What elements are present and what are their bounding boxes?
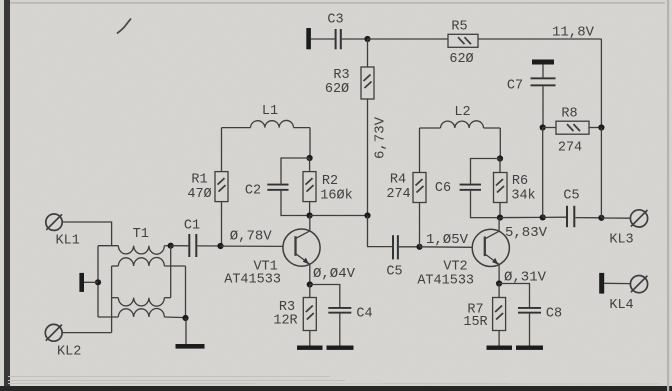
svg-text:16Øk: 16Øk	[320, 189, 352, 204]
svg-text:R8: R8	[561, 107, 577, 122]
svg-text:VT2: VT2	[443, 260, 467, 275]
wire junction down to ground	[185, 318, 187, 344]
svg-text:C1: C1	[184, 219, 200, 234]
junction C7/R8 left	[540, 124, 546, 130]
wire emitter node to R3	[309, 285, 311, 298]
ground (T1 bottom)	[176, 344, 205, 349]
svg-text:C3: C3	[327, 13, 343, 28]
node C junction (R3/collector/C5)	[364, 212, 370, 218]
svg-text:AT41533: AT41533	[224, 273, 281, 288]
wire C5 to node D	[399, 246, 420, 248]
resistor R7	[493, 298, 506, 331]
junction rail/C7-R8 leg	[540, 214, 546, 220]
node F junction (supply leg/KL3)	[598, 215, 604, 221]
resistor R8	[556, 121, 589, 134]
wire R4 down to node D	[419, 203, 421, 247]
wire node D to VT2 base	[420, 246, 473, 249]
ground (C8)	[516, 346, 543, 350]
svg-text:C5: C5	[386, 265, 402, 280]
node D junction (C5/R4/VT2 base)	[416, 244, 422, 250]
wire node F to KL3	[601, 217, 630, 219]
wire L1 left down to R1	[221, 128, 223, 172]
svg-text:1,Ø5V: 1,Ø5V	[426, 232, 469, 248]
svg-text:C2: C2	[245, 184, 261, 199]
svg-text:C6: C6	[435, 181, 451, 196]
wire to R8	[543, 127, 556, 129]
ground (C7 top)	[532, 60, 554, 65]
wire C3 to node A	[342, 38, 368, 40]
wire left chain w1a to w2b	[97, 246, 99, 317]
wire C1 to base node	[197, 245, 220, 247]
capacitor C5 (output)	[566, 206, 575, 227]
svg-text:274: 274	[558, 141, 582, 156]
wire emitter node to C8	[499, 284, 529, 308]
svg-text:11,8V: 11,8V	[552, 25, 595, 41]
svg-text:5,83V: 5,83V	[505, 225, 548, 241]
scan frame bottom border	[0, 386, 672, 391]
wire R6 down to collector rail	[499, 203, 501, 218]
svg-text:R1: R1	[191, 173, 207, 188]
terminal KL4	[630, 276, 647, 293]
wire L1 right down to node B	[309, 128, 311, 158]
wire collector node to node C	[310, 215, 368, 217]
wire C7 down to R8 left node	[542, 86, 544, 127]
wire R7 to ground	[498, 331, 500, 346]
wire R3 down to collector node VT1	[367, 99, 369, 216]
svg-text:R4: R4	[390, 173, 406, 188]
svg-text:C8: C8	[546, 307, 562, 322]
wire R8 to supply leg	[589, 127, 601, 129]
terminal KL2	[45, 324, 62, 341]
terminal KL1	[46, 214, 62, 230]
wire node C down and right to C5	[368, 216, 393, 247]
junction R1/base	[217, 243, 223, 249]
svg-text:47Ø: 47Ø	[187, 187, 211, 202]
wire VT2 collector	[498, 218, 500, 232]
ground (T1 left)	[79, 273, 84, 292]
resistor R2	[303, 172, 316, 202]
wire C5 output to node F	[575, 217, 601, 219]
node B junction (L1/C2/R2)	[307, 155, 313, 161]
resistor R6	[494, 173, 508, 203]
svg-text:KL2: KL2	[57, 345, 81, 360]
ground (C4)	[327, 346, 354, 350]
transistor VT2	[472, 229, 509, 266]
transformer T1 winding 1b	[112, 258, 186, 267]
wire L2 left down to R4	[419, 128, 421, 173]
wire supply rail down right side	[600, 39, 602, 128]
wire C4 to ground	[339, 314, 341, 346]
wire C6 down to collector rail	[471, 191, 501, 218]
wire VT1 collector	[309, 216, 311, 232]
resistor R3 (620)	[361, 67, 374, 99]
capacitor C4	[328, 307, 351, 314]
wire w1b left down to KL2 line	[111, 266, 113, 333]
wire R5 to supply corner	[478, 38, 601, 40]
svg-text:274: 274	[386, 187, 410, 202]
wire ground to tap	[84, 281, 98, 283]
ground (KL4)	[599, 273, 604, 294]
capacitor C3	[335, 29, 342, 49]
wire node B down to R2	[309, 158, 311, 172]
svg-text:62Ø: 62Ø	[325, 82, 349, 97]
svg-text:AT41533: AT41533	[417, 274, 474, 289]
svg-text:Ø,Ø4V: Ø,Ø4V	[313, 266, 356, 282]
svg-text:KL1: KL1	[56, 234, 80, 249]
svg-text:15R: 15R	[463, 315, 487, 330]
transformer T1 winding 2a	[112, 298, 171, 307]
svg-text:L1: L1	[262, 104, 278, 119]
wire rail to C7/R8 junction	[500, 216, 543, 218]
svg-text:C7: C7	[507, 79, 523, 94]
node E junction (L2/C6/R6)	[497, 155, 503, 161]
wire R8 left node down to rail	[542, 128, 544, 218]
svg-text:KL3: KL3	[609, 233, 633, 248]
scan frame right edge line	[667, 0, 669, 391]
junction R8 right/supply leg	[598, 124, 604, 130]
transistor VT1	[283, 229, 320, 266]
wire C2 down to collector wire	[281, 191, 310, 216]
wire supply leg down to node F	[600, 128, 602, 218]
node A junction (C3/R3/R5)	[364, 36, 370, 42]
transformer T1 winding 1a	[98, 246, 171, 255]
svg-text:62Ø: 62Ø	[449, 52, 473, 67]
resistor R3 (12R)	[303, 298, 316, 331]
capacitor C5 (interstage)	[392, 235, 399, 259]
wire node E down to R6	[499, 159, 501, 173]
wire VT1 emitter	[309, 264, 311, 284]
junction T1 ground tap	[95, 279, 101, 285]
svg-text:KL4: KL4	[609, 298, 633, 313]
svg-text:Ø,78V: Ø,78V	[230, 229, 273, 245]
wire L2 right down to node E	[499, 128, 501, 159]
svg-text:R3: R3	[333, 68, 349, 83]
capacitor C1	[188, 234, 197, 257]
resistor R5	[448, 34, 478, 47]
capacitor C8	[518, 307, 541, 314]
wire ground to C3	[311, 38, 335, 40]
wire C8 to ground	[529, 314, 531, 346]
svg-text:C5: C5	[563, 189, 579, 204]
resistor R4	[413, 173, 426, 203]
wire node A down to R3	[367, 39, 369, 67]
inductor L2	[420, 121, 501, 128]
svg-text:12R: 12R	[273, 314, 297, 329]
ground (C3 left)	[306, 28, 311, 49]
faint scan lines bottom left	[8, 377, 660, 384]
svg-text:L2: L2	[454, 105, 470, 120]
svg-text:Ø,31V: Ø,31V	[504, 270, 547, 286]
terminal KL3	[630, 210, 647, 227]
junction VT1 emitter node	[307, 281, 313, 287]
scan frame top edge line	[10, 2, 665, 3]
wire node B left to C2	[281, 158, 310, 184]
ground (R7)	[487, 346, 513, 350]
wire emitter node to C4	[310, 285, 340, 308]
svg-text:R6: R6	[512, 174, 528, 189]
inductor L1	[222, 120, 311, 127]
svg-text:T1: T1	[133, 227, 149, 242]
junction R2/collector	[307, 212, 313, 218]
resistor R1	[215, 172, 228, 202]
junction VT2 emitter node	[496, 280, 502, 286]
wire node A to R5	[368, 38, 449, 40]
wire C1 node down to w2a right	[170, 246, 172, 298]
scan frame left border	[4, 0, 10, 391]
svg-text:R2: R2	[322, 174, 338, 189]
capacitor C6	[460, 184, 481, 191]
wire ground to C7	[542, 65, 544, 78]
wire node E left to C6	[471, 159, 501, 184]
capacitor C2	[267, 184, 288, 191]
wire R3 to ground	[309, 331, 311, 346]
wire rail to C5 output	[543, 216, 566, 218]
capacitor C7	[531, 77, 556, 86]
stray pen mark top left	[117, 19, 131, 34]
transformer T1 winding 2b	[98, 309, 186, 318]
wire C1 node to C1	[171, 245, 189, 247]
junction T1 bottom right	[182, 315, 188, 321]
wire base node to VT1 base	[221, 245, 284, 247]
svg-text:C4: C4	[356, 307, 372, 322]
wire R1 down to base node	[221, 202, 223, 246]
wire KL2 to T1	[62, 332, 111, 334]
wire w1a right to C1 node	[168, 243, 174, 249]
wire ground to KL4	[604, 282, 630, 284]
ground (R3)	[297, 346, 323, 350]
junction VT2 collector rail	[497, 215, 503, 221]
wire VT2 emitter	[498, 265, 500, 284]
wire emitter node to R7	[498, 284, 500, 298]
wire R2 down to collector node	[309, 202, 311, 216]
wire w1b right down to bottom junction	[185, 266, 187, 318]
svg-text:34k: 34k	[511, 189, 535, 204]
svg-text:R5: R5	[451, 20, 467, 35]
wire KL1 to T1	[62, 222, 111, 246]
svg-text:6,73V: 6,73V	[373, 116, 389, 159]
